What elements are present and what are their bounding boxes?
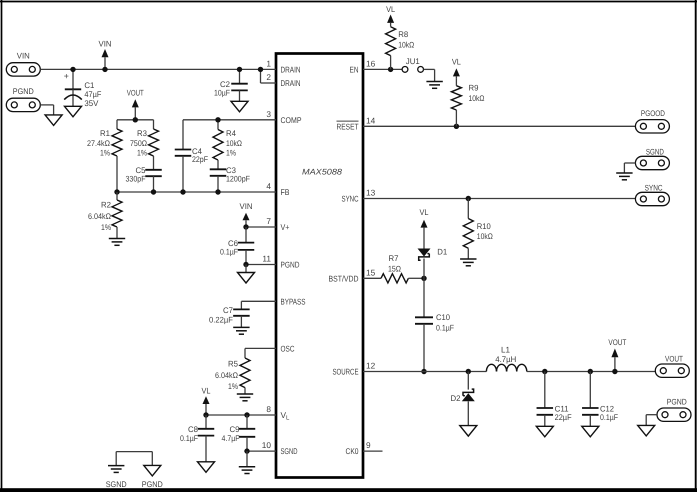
svg-text:14: 14 <box>366 115 376 125</box>
resistor R4 10k <box>213 120 242 170</box>
ground below C12 (power) <box>582 426 599 437</box>
svg-text:CK0: CK0 <box>346 446 359 456</box>
svg-text:0.1µF: 0.1µF <box>436 323 454 332</box>
junction R10/SYNC <box>466 196 471 201</box>
wire OSC pin <box>245 348 276 358</box>
junction C6/PGND <box>243 262 248 267</box>
wire PGND pad to ground <box>40 105 53 115</box>
capacitor C11 22uF <box>537 372 572 427</box>
svg-text:BYPASS: BYPASS <box>281 296 306 306</box>
svg-text:VL: VL <box>202 387 211 396</box>
ground below pin 10 (signal) <box>239 451 255 473</box>
power flag VOUT (divider) <box>127 89 144 120</box>
ground below R2 (signal) <box>109 239 125 246</box>
svg-text:12: 12 <box>366 361 376 371</box>
svg-text:4.7µH: 4.7µH <box>495 355 516 364</box>
junction C9/SGND <box>244 448 249 453</box>
junction pin2 branch <box>258 67 263 72</box>
svg-text:SOURCE: SOURCE <box>333 367 359 377</box>
svg-text:PGND: PGND <box>13 87 34 96</box>
capacitor C8 0.1uF <box>180 415 214 462</box>
svg-text:16: 16 <box>366 58 376 68</box>
wire V+ pin 7 <box>246 226 276 228</box>
wire L1 to VOUT pad <box>527 371 656 373</box>
wire COMP pin 3 <box>183 119 276 121</box>
wire SGND-PGND tie <box>116 452 152 466</box>
svg-text:2: 2 <box>266 72 271 82</box>
svg-text:C8: C8 <box>188 425 198 434</box>
svg-text:VL: VL <box>386 5 395 14</box>
svg-text:PGND: PGND <box>142 480 163 489</box>
resistor R8 10k with VL flag <box>386 5 415 69</box>
svg-text:R1: R1 <box>100 129 110 138</box>
ground PGND (power) triangle <box>45 115 62 126</box>
terminal SGND pad <box>635 147 669 169</box>
svg-text:13: 13 <box>366 188 376 198</box>
wire SOURCE pin 12 to L1 <box>363 371 486 373</box>
ground below C8 (power) <box>198 462 215 473</box>
svg-text:R7: R7 <box>389 254 399 263</box>
wire BYPASS pin <box>241 301 276 309</box>
capacitor C1 47uF 35V <box>64 69 102 108</box>
junction R1/R2 on FB <box>114 189 119 194</box>
left pin numbers <box>262 58 272 450</box>
capacitor C10 0.1uF <box>415 278 454 371</box>
wire PGND pad to ground <box>646 415 657 426</box>
svg-text:PGND: PGND <box>281 260 300 270</box>
svg-text:VIN: VIN <box>240 202 253 211</box>
ground below C2 <box>231 101 248 112</box>
svg-text:15: 15 <box>366 267 376 277</box>
junction C4 on FB <box>180 189 185 194</box>
wire EN pin 16 <box>363 68 402 70</box>
ground SGND pad (signal) <box>616 173 632 180</box>
capacitor C3 1200pF <box>210 166 250 192</box>
svg-text:SGND: SGND <box>646 147 664 156</box>
junction V+ C6 <box>243 224 248 229</box>
svg-text:11: 11 <box>262 254 271 264</box>
svg-text:OSC: OSC <box>281 343 295 353</box>
svg-text:10kΩ: 10kΩ <box>477 232 493 241</box>
svg-text:COMP: COMP <box>281 115 302 125</box>
svg-text:6.04kΩ: 6.04kΩ <box>215 371 238 380</box>
svg-text:0.1µF: 0.1µF <box>600 413 618 422</box>
svg-text:22µF: 22µF <box>555 413 572 422</box>
terminal PGOOD pad <box>635 109 669 133</box>
ground below R10 (signal) <box>460 259 476 266</box>
svg-text:SYNC: SYNC <box>342 194 359 204</box>
ground PGND symbol (power) <box>142 465 163 489</box>
svg-text:10kΩ: 10kΩ <box>226 139 242 148</box>
svg-text:750Ω: 750Ω <box>130 139 147 148</box>
svg-text:VL: VL <box>420 208 429 217</box>
IC left pin names <box>281 64 306 456</box>
IC right pin names (RESET overlined) <box>329 64 359 456</box>
junction R3/C5 on FB <box>151 189 156 194</box>
svg-text:10: 10 <box>262 440 272 450</box>
svg-text:V+: V+ <box>281 222 290 232</box>
svg-text:PGND: PGND <box>667 398 687 407</box>
svg-text:1%: 1% <box>100 149 110 158</box>
resistor R9 10k with VL flag <box>451 58 484 127</box>
wire PGND pin 11 <box>246 264 276 266</box>
svg-text:R5: R5 <box>228 360 238 369</box>
power flag VIN (V+) <box>240 202 253 227</box>
svg-text:VOUT: VOUT <box>665 355 683 364</box>
wire VL pin 8 <box>206 414 276 416</box>
svg-text:DRAIN: DRAIN <box>281 78 301 88</box>
ground JU1 (signal) <box>426 82 442 89</box>
junction R9/RESET <box>454 124 459 129</box>
ground below D2 (power) <box>460 426 477 437</box>
ground below pin 11 PGND <box>238 265 255 284</box>
capacitor C4 22pF <box>175 120 208 192</box>
svg-text:0.1µF: 0.1µF <box>180 434 198 443</box>
capacitor C9 4.7uF <box>222 415 256 451</box>
svg-text:R8: R8 <box>398 30 408 39</box>
svg-text:VIN: VIN <box>17 52 30 61</box>
junction C10 on SOURCE <box>421 369 426 374</box>
junction D2 on SOURCE <box>466 369 471 374</box>
svg-text:DRAIN: DRAIN <box>281 64 301 74</box>
svg-text:+: + <box>64 71 69 81</box>
svg-text:9: 9 <box>366 440 371 450</box>
svg-text:1%: 1% <box>101 223 111 232</box>
resistor R10 10k <box>463 199 493 260</box>
svg-text:10kΩ: 10kΩ <box>398 41 414 50</box>
resistor R3 750 <box>130 120 159 170</box>
wire R7 to node <box>408 277 424 279</box>
svg-text:330pF: 330pF <box>126 175 146 184</box>
junction BST node <box>421 276 426 281</box>
svg-text:10µF: 10µF <box>214 88 230 97</box>
resistor R2 6.04k <box>88 192 122 239</box>
wire VIN rail to pin 1 DRAIN <box>40 68 276 70</box>
terminal PGND pad (output) <box>657 398 691 422</box>
svg-text:FB: FB <box>281 187 290 197</box>
junction VOUT arrow on bracket <box>133 117 138 122</box>
svg-text:R10: R10 <box>477 222 491 231</box>
svg-text:C1: C1 <box>84 81 94 90</box>
jumper JU1 <box>402 57 423 72</box>
wire RESET pin 14 to PGOOD <box>363 125 635 127</box>
svg-text:VOUT: VOUT <box>127 89 144 98</box>
svg-text:0.22µF: 0.22µF <box>209 315 233 324</box>
svg-text:6.04kΩ: 6.04kΩ <box>88 212 111 221</box>
svg-text:R2: R2 <box>101 201 111 210</box>
svg-text:3: 3 <box>266 109 271 119</box>
ground PGND output (power) <box>638 425 655 436</box>
junction C11 on SOURCE <box>542 369 547 374</box>
terminal PGND pad <box>6 87 40 112</box>
wire SGND pin 10 <box>247 450 276 452</box>
svg-text:L1: L1 <box>501 346 510 355</box>
junction VIN arrow <box>102 67 107 72</box>
power flag VIN (rail) <box>99 40 112 70</box>
svg-text:VL: VL <box>452 58 461 67</box>
svg-text:R4: R4 <box>226 129 236 138</box>
diode D2 schottky <box>451 372 475 426</box>
svg-text:1: 1 <box>266 58 271 68</box>
junction C2 on rail <box>237 67 242 72</box>
junction VOUT arrow <box>612 369 617 374</box>
power flag VOUT (output) <box>608 338 626 372</box>
resistor R5 6.04k <box>215 358 250 394</box>
junction C12 on SOURCE <box>588 369 593 374</box>
junction C1 on rail <box>70 67 75 72</box>
svg-text:JU1: JU1 <box>406 57 420 66</box>
svg-text:MAX5088: MAX5088 <box>302 168 342 177</box>
svg-text:4.7µF: 4.7µF <box>222 434 240 443</box>
svg-text:D1: D1 <box>437 248 447 257</box>
svg-text:27.4kΩ: 27.4kΩ <box>87 139 110 148</box>
terminal VOUT pad <box>655 355 689 378</box>
capacitor C7 0.22uF <box>209 306 250 328</box>
diode D1 schottky with VL flag <box>418 208 448 278</box>
terminal SYNC pad <box>635 183 669 205</box>
ground below C7 (signal) <box>233 327 249 334</box>
op-amp U1 MAX5088 IC body <box>276 54 363 478</box>
svg-text:10kΩ: 10kΩ <box>469 94 485 103</box>
svg-text:VIN: VIN <box>99 40 112 49</box>
svg-text:1%: 1% <box>226 149 236 158</box>
svg-text:EN: EN <box>350 64 359 74</box>
wire R1-R3 top bracket <box>117 119 154 121</box>
capacitor C12 0.1uF <box>582 372 618 427</box>
svg-text:22pF: 22pF <box>192 155 208 164</box>
svg-text:RESET: RESET <box>337 122 359 132</box>
ground below C11 (power) <box>536 426 553 437</box>
svg-text:4: 4 <box>266 181 271 191</box>
wire pin 2 DRAIN branch <box>261 69 277 83</box>
svg-text:C7: C7 <box>223 306 233 315</box>
terminal VIN pad <box>6 52 40 77</box>
junction R4 top on COMP <box>215 117 220 122</box>
svg-text:8: 8 <box>266 404 271 414</box>
svg-text:SGND: SGND <box>281 446 298 456</box>
svg-text:VOUT: VOUT <box>608 338 626 347</box>
junction VL/C9 <box>244 412 249 417</box>
svg-text:R9: R9 <box>469 84 479 93</box>
svg-text:SGND: SGND <box>106 480 127 489</box>
svg-text:SYNC: SYNC <box>645 183 663 192</box>
capacitor C5 330pF <box>126 166 162 192</box>
svg-text:7: 7 <box>266 216 271 226</box>
svg-text:D2: D2 <box>451 394 461 403</box>
svg-text:BST/VDD: BST/VDD <box>329 273 359 283</box>
wire SYNC pin 13 to pad <box>363 198 635 200</box>
resistor R1 27.4k <box>87 120 122 192</box>
ground SGND symbol (signal) <box>106 466 127 489</box>
svg-text:1%: 1% <box>228 382 238 391</box>
wire SGND pad to ground <box>624 163 635 173</box>
svg-text:C9: C9 <box>230 425 240 434</box>
wire BST/VDD pin 15 to R7 <box>363 277 381 279</box>
junction VL/C8 <box>203 412 208 417</box>
junction R4/C3 on FB <box>215 189 220 194</box>
svg-text:PGOOD: PGOOD <box>641 109 665 118</box>
svg-text:1%: 1% <box>137 149 147 158</box>
capacitor C6 0.1uF <box>220 227 254 265</box>
svg-text:0.1µF: 0.1µF <box>220 247 238 256</box>
right pin numbers <box>366 58 376 450</box>
svg-text:C10: C10 <box>436 313 450 322</box>
capacitor C2 10uF <box>214 69 248 101</box>
inductor L1 4.7uH <box>486 346 526 372</box>
svg-text:1200pF: 1200pF <box>226 175 250 184</box>
resistor R7 15 <box>381 254 408 283</box>
power flag VL (pin 8) <box>202 387 211 416</box>
svg-text:47µF: 47µF <box>84 90 101 99</box>
ground below C1 <box>65 106 82 117</box>
junction R8/EN <box>388 67 393 72</box>
svg-text:35V: 35V <box>84 99 99 108</box>
wire CK0 pin 9 stub <box>363 450 383 452</box>
ground below R5 (signal) <box>237 394 253 401</box>
svg-text:15Ω: 15Ω <box>388 264 401 273</box>
wire JU1 to ground <box>424 69 435 81</box>
svg-text:R3: R3 <box>137 129 147 138</box>
wire FB pin 4 <box>117 191 276 193</box>
